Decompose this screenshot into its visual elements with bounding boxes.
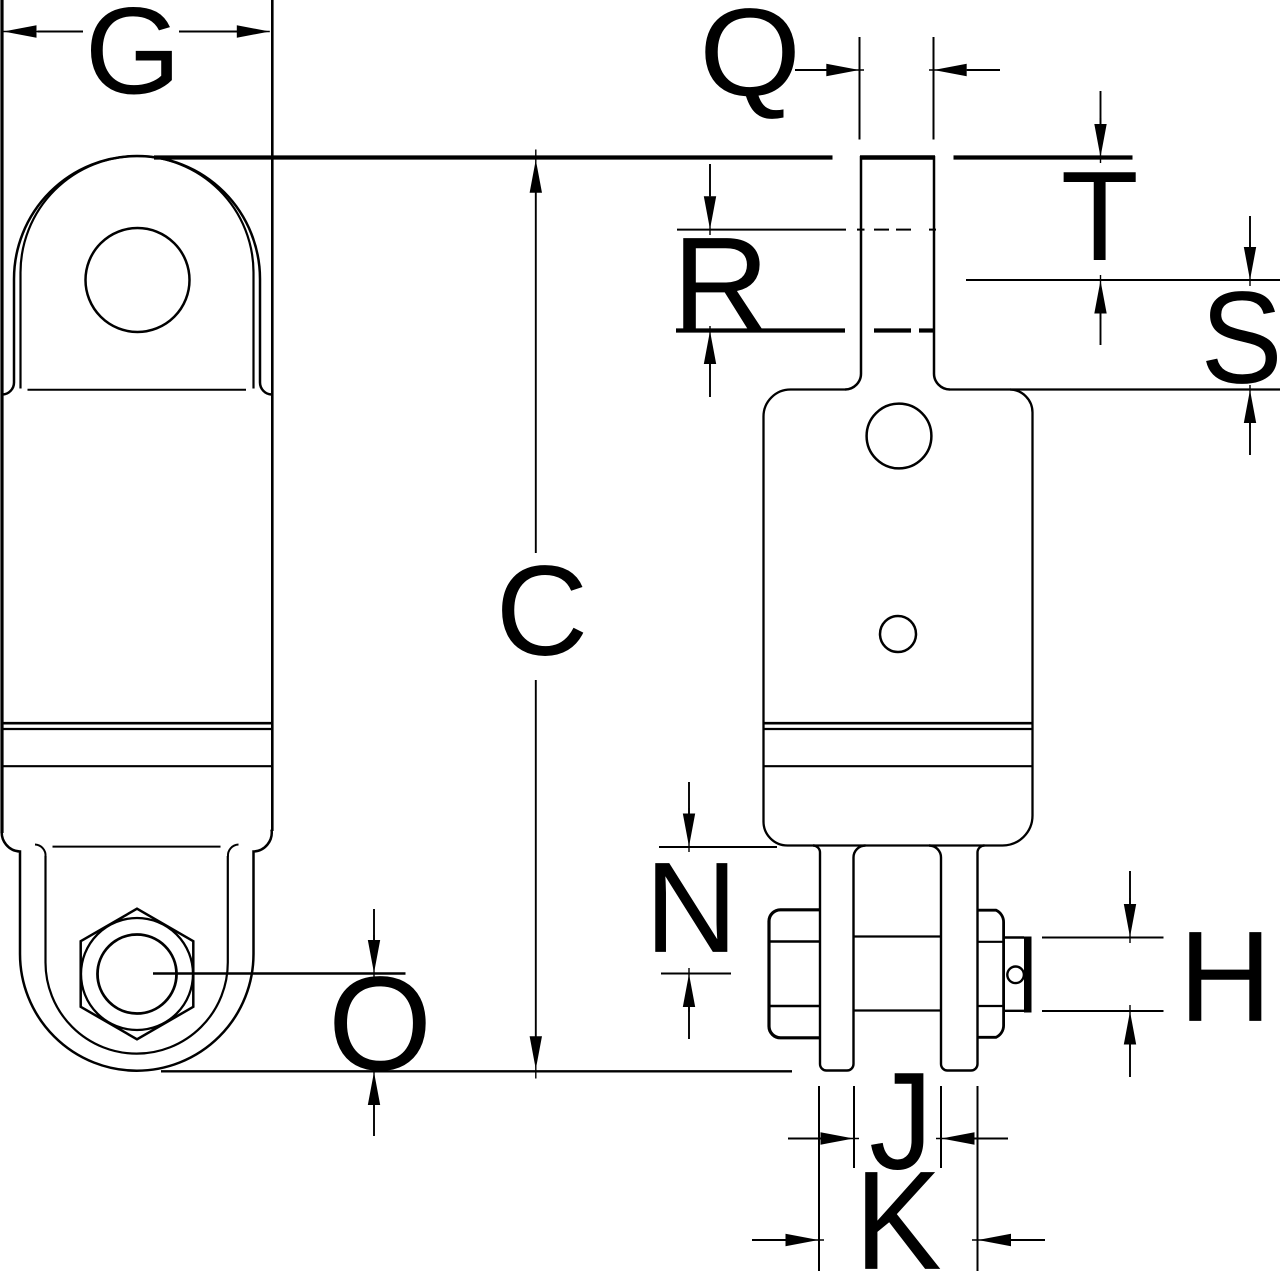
top eye hole <box>86 228 190 332</box>
dimension Q extension line left (stem left edge) <box>859 37 861 140</box>
dimension C vertical line upper segment with up arrow <box>535 193 537 554</box>
dimension J extension line left-inner <box>853 1086 855 1168</box>
clevis body band double line 1 <box>764 722 1033 725</box>
lower tab inner left fillet hook <box>35 845 46 857</box>
dimension H lower arrow pointing up <box>1129 1044 1131 1077</box>
dimension R upper arrow pointing down <box>709 164 711 196</box>
svg-text:H: H <box>1179 905 1272 1049</box>
svg-text:S: S <box>1201 264 1280 410</box>
dimension O lower arrow pointing up <box>373 1104 375 1136</box>
dimension J extension line left-outer (also K) <box>818 1086 820 1271</box>
dimension R extension line lower (thick) <box>676 328 845 332</box>
dimension N upper arrow pointing down <box>688 782 690 814</box>
strap band upper double line 1 <box>2 722 272 725</box>
lower hidden dash line across stem (thick) dash 1 <box>874 328 911 332</box>
bolt protruding end upper edge <box>1004 936 1025 938</box>
dimension J extension line right-outer (also K) <box>977 1086 979 1271</box>
nut side view facet line lower <box>769 1005 820 1007</box>
dimension R extension line upper (thin) <box>677 229 846 231</box>
dimension T lower arrow pointing up <box>1100 313 1102 345</box>
clevis body bottom-left fillet <box>763 821 787 846</box>
left strap body right edge / G extension line <box>271 0 274 831</box>
cotter pin hole in bolt end <box>1007 967 1024 984</box>
dimension G line right with arrow <box>179 31 239 33</box>
dimension S lower arrow pointing up <box>1249 422 1251 455</box>
clevis body outline: top edge right segment / S extension line <box>950 388 1280 390</box>
clevis body top-left corner fillet <box>764 390 791 417</box>
clevis body band double line 2 <box>764 728 1033 730</box>
strap band upper double line 2 <box>2 728 272 730</box>
nut washer-face circle <box>98 935 177 1014</box>
lower tab outer profile with shoulder fillets and bottom arc <box>2 830 272 1071</box>
heavy top line: right segment toward T dimension <box>954 155 1133 159</box>
dimension T upper arrow pointing down <box>1100 91 1102 124</box>
bolt shaft lower edge seen in jaw slot <box>855 1009 941 1011</box>
heavy top line: clevis stem top edge <box>860 155 935 159</box>
dimension J left arrow pointing right <box>788 1138 824 1140</box>
svg-text:C: C <box>496 540 589 683</box>
upper hidden dash line across stem (thin) <box>857 229 865 231</box>
clevis body top hole <box>867 404 932 469</box>
clevis stem left edge with fillet into body <box>845 156 861 390</box>
svg-text:T: T <box>1061 146 1139 288</box>
dimension N lower arrow pointing up <box>688 1006 690 1039</box>
jaw right leg outline <box>929 846 985 1071</box>
hex nut hexagon on left part <box>81 909 194 1040</box>
svg-text:O: O <box>328 950 432 1099</box>
bolt head side view on right of jaw <box>978 910 1004 1037</box>
dimension R lower arrow pointing up <box>709 364 711 397</box>
nut side view facet line upper <box>769 940 820 942</box>
svg-text:K: K <box>855 1142 942 1272</box>
bolt head facet line lower <box>978 1005 1003 1007</box>
bolt shaft upper edge seen in jaw slot <box>855 935 941 937</box>
dimension Q extension line right (stem right edge) <box>933 37 935 140</box>
dimension H lower line <box>1042 1010 1164 1012</box>
heavy top line: left segment over strap eye <box>154 155 833 159</box>
upper shoulder line of strap <box>28 389 247 391</box>
jaw left leg outline <box>813 846 866 1071</box>
dimension N upper line <box>659 846 777 848</box>
clevis body bottom-right fillet <box>1002 816 1033 846</box>
svg-text:Q: Q <box>699 0 801 123</box>
dimension H upper line <box>1042 937 1164 939</box>
O leader line from nut center <box>153 972 406 974</box>
clevis body small hole <box>880 616 916 652</box>
svg-text:G: G <box>85 0 181 121</box>
svg-text:R: R <box>672 209 769 360</box>
lower tab inner right fillet hook <box>228 845 239 857</box>
left strap body left edge / G extension line <box>0 0 3 833</box>
bottom extension line (overall bottom tangent) <box>161 1070 792 1072</box>
dimension O upper arrow pointing down <box>373 909 375 941</box>
clevis body band lower line <box>764 765 1033 767</box>
dimension T lower line <box>966 279 1280 281</box>
dimension Q arrow right <box>967 69 1000 71</box>
hex nut chamfer circle <box>81 918 193 1030</box>
dimension S upper arrow pointing down <box>1249 216 1251 248</box>
dimension H upper arrow pointing down <box>1129 871 1131 904</box>
hex nut side view on left of jaw <box>769 910 820 1038</box>
clevis body right edge <box>1031 413 1033 816</box>
clevis body left edge <box>762 417 764 822</box>
svg-text:N: N <box>645 836 738 980</box>
strap band lower line <box>2 765 272 767</box>
bolt head facet line upper <box>978 941 1003 943</box>
clevis body top-right corner fillet <box>1010 390 1033 413</box>
clevis stem right edge with fillet into body <box>934 156 950 390</box>
dimension Q arrow left <box>795 69 830 71</box>
top eye inner arc (strap inner edge) <box>21 156 254 388</box>
lower hidden dash line across stem (thick) dash 2 <box>919 328 934 332</box>
top eye outer dome arc with side fillets <box>3 156 272 394</box>
dimension J right arrow pointing left <box>974 1138 1008 1140</box>
dimension K right arrow pointing left <box>1011 1239 1046 1241</box>
bolt end cap bar <box>1024 937 1032 1013</box>
bolt protruding end lower edge <box>1004 1010 1025 1012</box>
dimension K left arrow pointing right <box>752 1239 789 1241</box>
lower tab inner edge (strap inner edge, U shape) <box>46 856 228 1054</box>
dimension G line left with arrow <box>38 31 84 33</box>
lower shoulder line of strap <box>53 846 221 848</box>
clevis body outline: top edge left segment <box>791 388 846 390</box>
dimension N lower line at bolt centerline <box>661 973 731 975</box>
dimension C vertical line lower segment with down arrow <box>535 680 537 1038</box>
clevis body bottom edge / jaw shoulder line <box>788 844 1003 846</box>
dimension J extension line right-inner <box>940 1086 942 1168</box>
